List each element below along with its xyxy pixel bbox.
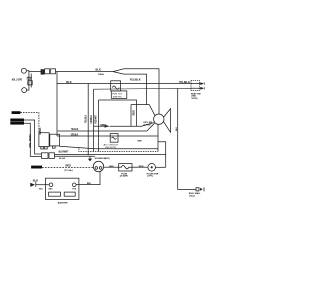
svg-text:FUEL SOL: FUEL SOL <box>112 94 123 96</box>
svg-text:YEL/BLK: YEL/BLK <box>179 80 190 84</box>
svg-text:GRN/BLK: GRN/BLK <box>90 115 93 124</box>
svg-text:MODULES: MODULES <box>11 123 25 125</box>
svg-text:NOTE): NOTE) <box>192 98 198 100</box>
svg-text:BLK: BLK <box>176 126 178 131</box>
svg-text:NEG: NEG <box>49 188 53 190</box>
svg-text:YEL/BLK: YEL/BLK <box>71 127 79 131</box>
svg-text:(12V): (12V) <box>105 158 110 160</box>
svg-text:RED/BLK: RED/BLK <box>39 127 42 134</box>
svg-text:ORG: ORG <box>100 123 106 127</box>
svg-text:RED/WHT: RED/WHT <box>95 115 98 124</box>
svg-text:(5 POS): (5 POS) <box>144 124 151 126</box>
svg-text:BLK: BLK <box>33 179 38 183</box>
svg-text:RED: RED <box>139 166 144 168</box>
svg-text:(OPT.): (OPT.) <box>148 175 154 177</box>
svg-text:18GA: 18GA <box>98 73 104 76</box>
svg-text:(20 AMP): (20 AMP) <box>120 175 128 178</box>
svg-text:ORG: ORG <box>29 143 32 148</box>
svg-text:RED: RED <box>109 166 114 168</box>
svg-text:RED: RED <box>66 164 72 168</box>
svg-text:FUSES: FUSES <box>12 113 21 115</box>
svg-text:BLK: BLK <box>66 80 71 84</box>
svg-text:RED: RED <box>87 183 92 185</box>
svg-text:HDL 2-SPD: HDL 2-SPD <box>12 78 22 82</box>
svg-text:BLK: BLK <box>96 67 101 71</box>
svg-text:(KILL): (KILL) <box>190 195 196 197</box>
svg-text:BATTERY: BATTERY <box>58 202 69 205</box>
svg-text:START: START <box>32 166 39 169</box>
svg-text:RED: RED <box>138 141 143 143</box>
svg-text:YEL/BLK: YEL/BLK <box>85 115 88 124</box>
svg-text:YEL/BLK: YEL/BLK <box>130 78 141 82</box>
svg-text:BLK/WHT: BLK/WHT <box>59 149 69 153</box>
svg-text:(TO GA+): (TO GA+) <box>65 169 74 172</box>
svg-text:16 GA: 16 GA <box>59 157 66 160</box>
svg-text:ORG/BLK: ORG/BLK <box>71 133 79 137</box>
svg-text:INTERLOCK: INTERLOCK <box>11 120 25 122</box>
svg-text:(SEE NOTE): (SEE NOTE) <box>105 147 116 149</box>
svg-text:(SEE FIG): (SEE FIG) <box>113 96 122 98</box>
svg-text:ORG/BLK: ORG/BLK <box>29 134 32 141</box>
svg-text:RED: RED <box>133 110 136 115</box>
